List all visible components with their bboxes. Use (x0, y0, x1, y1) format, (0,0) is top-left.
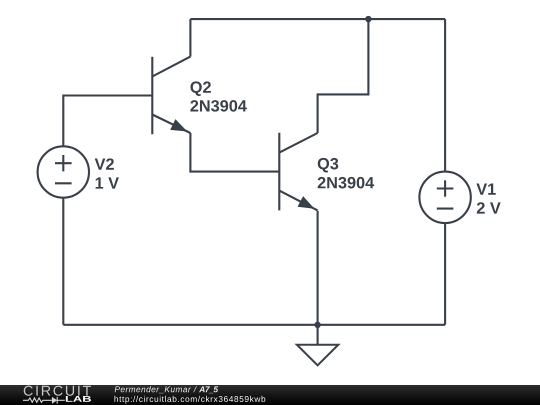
ground (297, 345, 338, 366)
wire ground stub (317, 325, 319, 345)
voltage source V2 (38, 146, 89, 197)
footer attribution title (199, 386, 218, 393)
wire bottom rail (63, 324, 445, 326)
node junction bottom (314, 322, 320, 328)
wire V2 top to Q2 base (63, 96, 152, 147)
footer logo LAB (66, 396, 91, 402)
wire right rail lower (444, 223, 446, 325)
label Q3 value 2N3904 (318, 177, 374, 189)
label V2 value 1 V (96, 177, 119, 188)
transistor Q2 (152, 57, 190, 135)
wire top rail (190, 18, 445, 20)
node junction top (365, 16, 371, 22)
wire Q3 emitter to bottom rail (317, 211, 319, 325)
footer attribution name (115, 386, 197, 393)
wire right rail upper (444, 19, 446, 172)
wire V2 bottom to bottom rail (62, 198, 64, 325)
transistor Q3 (279, 133, 317, 211)
label Q3 (318, 158, 338, 173)
wire Q2 emitter to Q3 base (190, 133, 279, 172)
voltage source V1 (419, 172, 470, 223)
footer logo CIRCUIT (24, 386, 91, 396)
label V1 value 2 V (477, 202, 501, 213)
footer logo diode (52, 397, 57, 404)
label V1 (476, 183, 495, 194)
label V2 (95, 158, 114, 169)
label Q2 value 2N3904 (190, 100, 246, 112)
footer bar (0, 385, 540, 405)
footer url (114, 396, 265, 404)
label Q2 (190, 81, 210, 96)
wire top node to Q3 collector (318, 19, 369, 133)
wire Q2 collector to top rail (189, 19, 191, 57)
footer logo schematic line (23, 397, 65, 404)
